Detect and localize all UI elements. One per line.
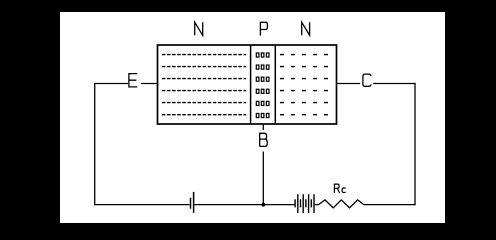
emitter-base junction divider	[250, 45, 252, 124]
node B junction dot	[261, 203, 265, 207]
battery (emitter supply, single cell)	[191, 192, 194, 213]
label Rc	[334, 184, 345, 193]
wire: bottom right segment resistor to corner	[364, 204, 416, 206]
terminal label E	[129, 74, 137, 87]
wire: bottom left segment to battery	[94, 204, 189, 206]
wire: collector battery to resistor stub	[315, 204, 319, 206]
resistor Rc zigzag	[319, 200, 364, 208]
wire: collector box to C label	[337, 83, 361, 85]
transistor body outline	[158, 45, 337, 124]
wire: base stub under box	[262, 124, 264, 130]
P region hole rows (ooo)	[256, 53, 269, 118]
label P (base region)	[260, 22, 267, 35]
right N region electron rows (sparse dashes)	[280, 55, 328, 115]
battery (collector supply, multi-cell)	[295, 194, 314, 213]
base-collector junction divider	[274, 45, 276, 124]
terminal label B	[260, 133, 268, 146]
wire: C label to right corner	[373, 83, 415, 85]
wire: emitter lead, corner to E label	[95, 83, 128, 85]
wire: E label to transistor box	[141, 83, 158, 85]
wire: right vertical rise	[414, 83, 416, 205]
terminal label C	[363, 74, 371, 86]
left N region electron rows (dense dashes)	[162, 55, 246, 115]
label N (emitter region)	[195, 22, 203, 35]
wire: left vertical drop	[94, 83, 96, 205]
wire: base vertical to bottom wire	[262, 152, 264, 205]
label N (collector region)	[302, 22, 310, 35]
wire: bottom middle segment battery to collector battery	[194, 204, 294, 206]
